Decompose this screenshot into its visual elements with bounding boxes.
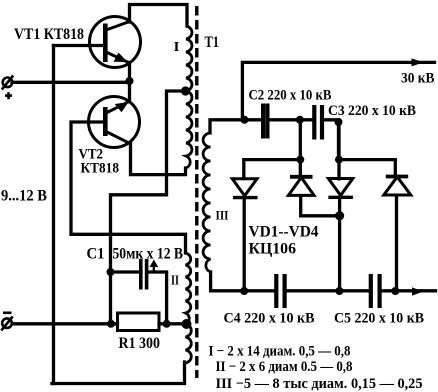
- wire VD4 anode down: [395, 196, 398, 292]
- wire winding III bottom to bottom rail: [211, 272, 274, 291]
- wire winding I tap to C1/R1 node: [111, 91, 185, 322]
- wire R1 leads: [111, 322, 186, 325]
- junction bottom rail VD4: [391, 287, 399, 295]
- wire bottom rail mid: [288, 289, 369, 292]
- wire diode top rail right: [339, 160, 395, 175]
- transistor VT2: [89, 97, 140, 148]
- transformer core: [195, 6, 198, 378]
- wire VT1 collector to winding I top: [130, 5, 188, 27]
- capacitor C2: [263, 104, 267, 139]
- capacitor C5: [371, 274, 380, 308]
- junction VD2 top: [296, 156, 304, 164]
- svg-text:VD1--VD4: VD1--VD4: [249, 224, 319, 241]
- junction bottom rail VD3: [335, 287, 343, 295]
- svg-text:9...12 В: 9...12 В: [1, 188, 47, 205]
- svg-text:III: III: [216, 208, 229, 223]
- svg-text:R1 300: R1 300: [119, 335, 161, 352]
- capacitor C1: [141, 259, 147, 290]
- svg-text:III −5 — 8 тыс диам. 0,15 — 0,: III −5 — 8 тыс диам. 0,15 — 0,25: [216, 376, 423, 392]
- wire node B drop: [299, 120, 302, 176]
- output arrow bottom: [412, 287, 424, 295]
- svg-text:30 кВ: 30 кВ: [401, 71, 435, 87]
- wire VT1 base to left vertical: [54, 44, 104, 47]
- svg-text:C2 220 x 10 кВ: C2 220 x 10 кВ: [249, 88, 332, 104]
- winding II tap dot: [182, 319, 192, 329]
- C1 polarity mark: [153, 264, 155, 272]
- terminal - input: [1, 313, 12, 331]
- wire + input to emitter junction: [12, 81, 130, 84]
- junction C1 left node: [107, 268, 115, 276]
- plus polarity mark: [5, 92, 12, 99]
- wire left vertical (VT1 base run): [52, 46, 55, 384]
- svg-text:I: I: [174, 39, 180, 54]
- junction node B: [296, 116, 304, 124]
- wire VT1 emitter / VT2 emitter vertical: [128, 63, 131, 102]
- wire VT2 collector to winding I bottom: [131, 144, 186, 175]
- wire 30kV riser and output line: [242, 62, 434, 119]
- junction emitter node: [126, 77, 134, 85]
- transistor VT1: [90, 17, 141, 68]
- wire VD3 cathode down: [338, 198, 341, 292]
- winding I tap dot: [181, 86, 190, 95]
- svg-text:VT1 КТ818: VT1 КТ818: [14, 26, 84, 43]
- diode VD4: [384, 177, 411, 196]
- wire winding III top to C2: [210, 120, 260, 133]
- winding I upper half: [186, 26, 192, 91]
- wire diode top rail left: [244, 160, 300, 179]
- junction VD2-VD3 mid: [335, 211, 344, 220]
- output arrow 30kV: [412, 58, 424, 66]
- winding III coil: [203, 133, 210, 272]
- wire VD2 anode to mid node: [301, 196, 340, 216]
- junction node A: [241, 116, 249, 124]
- diode VD2: [288, 177, 314, 196]
- junction bottom rail VD1: [240, 287, 248, 295]
- junction R1 left node: [107, 320, 115, 328]
- wire C2 to C3 node: [271, 118, 313, 121]
- capacitor C4: [276, 274, 284, 308]
- svg-text:C3 220 x 10 кВ: C3 220 x 10 кВ: [328, 103, 416, 119]
- svg-text:50мк х 12 В: 50мк х 12 В: [113, 246, 184, 263]
- capacitor C3: [314, 105, 322, 140]
- junction node C: [335, 118, 343, 126]
- wire C1 left lead: [111, 270, 140, 273]
- winding I lower half: [186, 91, 192, 168]
- wire - input rail: [13, 322, 111, 325]
- svg-text:Т1: Т1: [205, 34, 220, 51]
- wire bottom rail right with output: [383, 289, 436, 292]
- svg-text:C5 220 x 10 кВ: C5 220 x 10 кВ: [334, 311, 424, 327]
- svg-text:II: II: [171, 273, 179, 288]
- winding II upper half: [186, 253, 191, 324]
- wire C1 right lead down to R1 right node: [149, 272, 167, 324]
- wire VD3 top drop: [337, 123, 340, 179]
- terminal + input: [2, 76, 13, 90]
- wire bottom run to winding II bottom: [52, 362, 185, 384]
- resistor R1: [118, 313, 160, 331]
- winding II lower half: [186, 324, 192, 363]
- wire VD1 cathode to bottom rail: [243, 198, 246, 292]
- svg-text:КТ818: КТ818: [81, 161, 120, 177]
- diode VD3: [328, 179, 353, 198]
- junction VD3 top: [335, 156, 343, 164]
- wire C3 to corner node C: [325, 120, 339, 160]
- svg-text:КЦ106: КЦ106: [249, 241, 297, 258]
- svg-text:I − 2 х 14 диам. 0,5 — 0,8: I − 2 х 14 диам. 0,5 — 0,8: [209, 344, 351, 360]
- svg-text:II − 2 х 6 диам 0.5 — 0,8: II − 2 х 6 диам 0.5 — 0,8: [216, 359, 353, 375]
- svg-text:C4 220 x 10 кВ: C4 220 x 10 кВ: [224, 311, 315, 327]
- diode VD1: [232, 179, 257, 198]
- junction R1 right node: [163, 320, 171, 328]
- wire VT2 base run: [71, 122, 186, 253]
- svg-text:C1: C1: [87, 246, 105, 263]
